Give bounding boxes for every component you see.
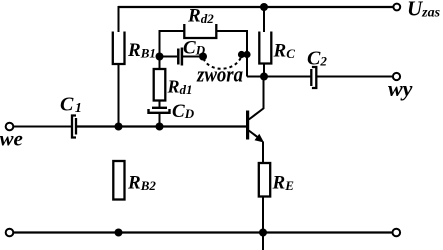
node dot zwora right (238, 51, 245, 58)
capacitor C1 (72, 116, 76, 138)
wire CD vertical to base line (159, 113, 161, 127)
wire Rd2 right drop (217, 31, 248, 77)
resistor Rd1 (154, 69, 166, 101)
wire left drop from rail to RB1 (118, 6, 120, 32)
resistor RB1 (113, 32, 125, 65)
wire Rd1 to CD vertical (159, 101, 161, 108)
svg-text:wy: wy (388, 76, 413, 101)
wire Rd2 left drop (160, 31, 185, 57)
wire collector line to wy (317, 76, 393, 78)
wire RB1 to base line (118, 64, 120, 127)
transistor Q1 (248, 108, 264, 140)
svg-text:zwora: zwora (196, 62, 243, 87)
wire base line from C1 to transistor base (77, 125, 247, 127)
terminal wy (393, 73, 400, 80)
wire RC top from rail (263, 7, 265, 32)
wire CD to zwora dot (183, 56, 203, 58)
resistor Rd2 (184, 24, 216, 38)
node dot bottom-RB2 (115, 229, 123, 237)
wire RE to bottom rail (262, 197, 264, 233)
node dot base-CD (156, 123, 164, 131)
wire node to Rd1 (159, 57, 161, 70)
wire collector line left part (247, 76, 311, 78)
svg-text:we: we (0, 127, 23, 151)
transistor Q1 collector wire (263, 77, 265, 109)
capacitor CD horizontal (178, 48, 182, 66)
wire RC bottom to collector node (263, 64, 265, 77)
node dot rail-RC (260, 3, 268, 11)
terminal bottom right (393, 229, 401, 237)
node dot collector (260, 73, 268, 81)
wire node to CD (160, 56, 178, 58)
wire emitter ground stub below rail (262, 233, 264, 250)
resistor RC (259, 32, 271, 64)
terminal Uzas (393, 4, 400, 11)
node dot Rd2 drop (243, 51, 250, 58)
transistor Q1 emitter arrowhead (255, 134, 265, 143)
terminal bottom left (6, 229, 14, 237)
node dot zwora left (199, 53, 207, 61)
transistor Q1 emitter wire (262, 142, 264, 164)
capacitor CD vertical (149, 108, 170, 113)
jumper zwora dashed arc (204, 57, 242, 69)
resistor RB2 (113, 161, 124, 200)
terminal we (6, 123, 14, 131)
node dot bottom-RE (259, 229, 267, 237)
node dot base-RB1 (115, 123, 123, 131)
node dot Rd network (156, 53, 164, 61)
resistor RE (259, 163, 270, 197)
capacitor C2 (311, 67, 316, 88)
wire bottom rail (14, 231, 394, 233)
wire base line left (we to C1) (14, 126, 72, 128)
wire top supply rail (118, 6, 393, 8)
